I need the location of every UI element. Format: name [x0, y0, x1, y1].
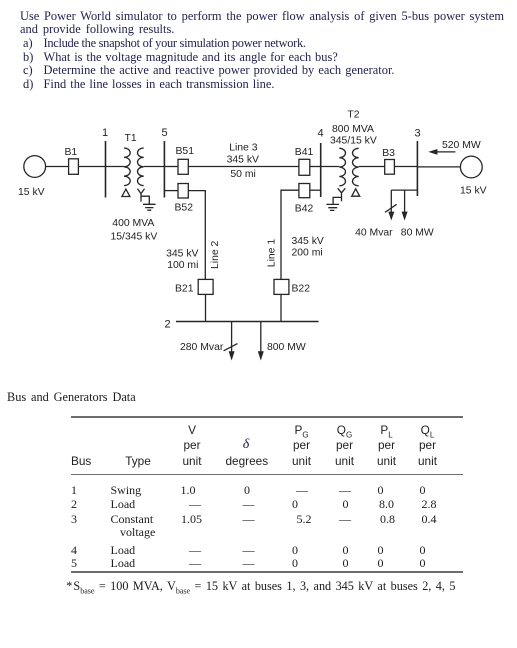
wire B42 to bus 4 — [310, 189, 321, 191]
wire bus 5 to B51 — [164, 166, 178, 168]
svg-text:Line 3: Line 3 — [229, 142, 258, 153]
wire T2 to B3 — [359, 166, 385, 168]
svg-text:T1: T1 — [125, 133, 137, 144]
svg-text:40 Mvar: 40 Mvar — [355, 227, 393, 238]
svg-text:B41: B41 — [295, 147, 314, 158]
transformer T2 primary winding — [339, 148, 345, 186]
svg-text:15 kV: 15 kV — [18, 187, 45, 198]
wire bus 5 to B52 — [164, 190, 178, 192]
wire B41 to bus 4 — [310, 166, 321, 168]
svg-text:B1: B1 — [65, 147, 78, 158]
wire bus 3 to G2 — [417, 166, 460, 168]
load arrow 800 MW at bus 2 — [260, 322, 262, 352]
load arrow 280 Mvar at bus 2 — [231, 322, 233, 352]
wire G1 to B1 — [46, 166, 69, 168]
breaker B21 — [198, 279, 213, 294]
svg-text:B21: B21 — [175, 284, 194, 295]
wire T1 to bus 5 — [144, 166, 165, 168]
load tap bar at bus 3 — [391, 189, 417, 191]
wire bus 1 to T1 — [106, 166, 125, 168]
svg-text:200 mi: 200 mi — [292, 248, 323, 259]
breaker B41 — [299, 159, 310, 175]
svg-text:4: 4 — [318, 128, 324, 140]
table rules — [71, 416, 464, 418]
bus 5 — [163, 141, 165, 198]
wire B22 to bus 2 — [280, 294, 282, 321]
breaker B3 — [385, 160, 395, 175]
280 Mvar slash — [224, 344, 238, 351]
generator G1 — [24, 156, 46, 178]
svg-text:1: 1 — [102, 127, 108, 139]
bus 2 — [176, 321, 319, 323]
bus 1 — [105, 141, 107, 198]
T2 ground — [326, 204, 339, 210]
bus 4 — [320, 143, 322, 197]
svg-text:520 MW: 520 MW — [442, 140, 481, 151]
load arrow 80 MW at bus 3 — [404, 190, 406, 212]
load arrow 40 Mvar at bus 3 — [390, 190, 392, 212]
wire B52 to Line 2 corner — [188, 191, 205, 280]
wire Line 3 (B51 to B41) — [188, 166, 299, 168]
T2 delta symbol — [352, 189, 360, 196]
wire Line 1 (corner to B22) — [281, 190, 299, 279]
svg-text:B22: B22 — [292, 284, 311, 295]
svg-text:B51: B51 — [176, 146, 195, 157]
svg-text:400 MVA: 400 MVA — [112, 218, 154, 229]
wire B1 to bus 1 — [78, 166, 105, 168]
breaker B1 — [69, 159, 79, 175]
T1 wye symbol — [138, 189, 150, 204]
svg-text:345 kV: 345 kV — [166, 248, 198, 259]
transformer T2 secondary winding — [353, 148, 359, 186]
wire bus 4 to T2 — [321, 166, 340, 168]
svg-text:50 mi: 50 mi — [230, 169, 255, 180]
svg-text:80 MW: 80 MW — [401, 227, 434, 238]
svg-text:B3: B3 — [382, 148, 395, 159]
svg-text:Line 2: Line 2 — [210, 240, 221, 269]
svg-text:2: 2 — [165, 319, 171, 331]
breaker B42 — [299, 184, 310, 198]
svg-text:15 kV: 15 kV — [460, 185, 487, 196]
table section — [7, 390, 136, 405]
svg-text:345 kV: 345 kV — [227, 154, 259, 165]
transformer T1 secondary winding — [138, 148, 144, 186]
T1 delta symbol — [122, 189, 130, 196]
svg-text:Line 1: Line 1 — [267, 239, 278, 268]
svg-text:100 mi: 100 mi — [167, 260, 198, 271]
svg-text:5: 5 — [162, 127, 168, 139]
wire B21 to bus 2 — [205, 294, 207, 321]
svg-text:800 MW: 800 MW — [267, 342, 306, 353]
breaker B52 — [178, 184, 188, 199]
svg-text:800 MVA: 800 MVA — [332, 124, 374, 135]
svg-text:B42: B42 — [295, 203, 314, 214]
520 MW arrow — [437, 151, 455, 153]
top problem text — [20, 10, 504, 24]
svg-text:15/345 kV: 15/345 kV — [111, 232, 158, 243]
table headers — [192, 423, 200, 437]
svg-text:345/15 kV: 345/15 kV — [330, 135, 377, 146]
svg-text:T2: T2 — [347, 110, 359, 121]
T2 wye symbol — [333, 188, 345, 204]
wire B3 to bus 3 — [394, 166, 417, 168]
footnote — [66, 579, 455, 595]
generator G2 — [460, 156, 482, 178]
svg-text:B52: B52 — [175, 203, 194, 214]
T1 ground — [143, 204, 156, 210]
table data rows — [71, 483, 77, 498]
40 Mvar slash — [385, 204, 397, 212]
transformer T1 primary winding — [124, 148, 130, 186]
breaker B51 — [178, 159, 188, 174]
svg-text:280 Mvar: 280 Mvar — [180, 342, 224, 353]
svg-text:345 kV: 345 kV — [292, 236, 324, 247]
breaker B22 — [274, 279, 289, 294]
bus 3 — [416, 141, 418, 196]
svg-text:3: 3 — [415, 128, 421, 140]
